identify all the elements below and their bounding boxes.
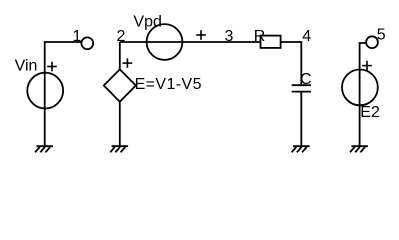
svg-text:Vin: Vin — [15, 58, 38, 75]
wire diamond bottom to ground — [119, 102, 121, 146]
plus sign of Vin — [47, 62, 57, 72]
ground (right, under E2) — [350, 146, 368, 152]
plus sign of E2 — [362, 61, 372, 71]
ground (under E source) — [110, 146, 128, 152]
wire node5 stub and vertical through E2 — [360, 43, 367, 146]
wire node2 vertical to diamond — [119, 42, 121, 69]
ground (left, under Vin) — [35, 146, 53, 152]
node 5 terminal circle — [366, 36, 378, 48]
svg-text:3: 3 — [225, 28, 234, 45]
plus sign of E — [123, 58, 133, 68]
svg-text:E2: E2 — [360, 104, 380, 121]
capacitor C plates — [292, 85, 311, 91]
svg-text:1: 1 — [73, 28, 82, 45]
voltage source E2 circle — [342, 70, 378, 106]
wire resistor to node4 corner — [281, 42, 302, 84]
ground (under C) — [292, 146, 310, 152]
wire capacitor to ground — [300, 92, 302, 146]
voltage source Vin circle — [27, 73, 63, 109]
svg-text:R: R — [254, 28, 266, 45]
wire node1 horizontal — [45, 42, 82, 72]
svg-text:5: 5 — [377, 27, 386, 44]
svg-text:2: 2 — [117, 28, 126, 45]
dependent source E diamond — [104, 69, 136, 101]
node 1 terminal circle — [81, 37, 93, 49]
svg-text:C: C — [300, 71, 312, 88]
svg-text:E=V1-V5: E=V1-V5 — [135, 76, 202, 93]
wire Vin vertical through source — [44, 72, 46, 146]
plus sign of Vpd — [196, 30, 206, 40]
svg-text:4: 4 — [302, 28, 311, 45]
voltage source Vpd circle — [147, 24, 183, 60]
svg-text:Vpd: Vpd — [133, 13, 161, 30]
wire top horizontal through Vpd — [120, 41, 261, 43]
resistor R body — [261, 36, 281, 48]
